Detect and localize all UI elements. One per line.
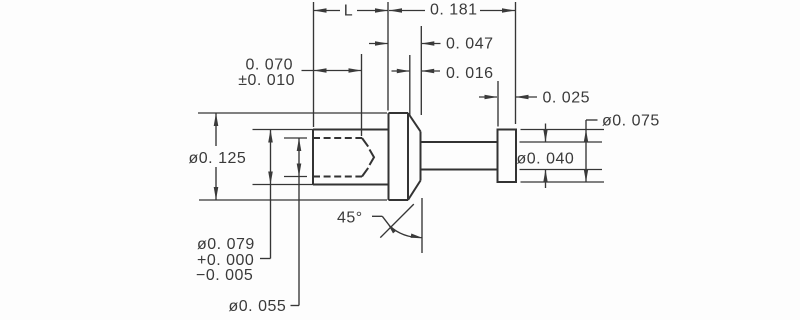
extension line: flange left face (L / 0.181 / 0.047) — [387, 2, 389, 111]
extension line: chamfer start (0.016) — [409, 55, 411, 115]
extension line: cap top (dia 0.075) — [521, 129, 605, 131]
extension line: bore bottom (dia 0.055) — [284, 176, 307, 178]
hidden bore cone lower (dashed) — [362, 168, 368, 177]
extension line: shaft bottom (dia 0.040) — [520, 169, 603, 171]
extension line: flange top (dia 0.125) — [198, 112, 387, 114]
extension line: shaft top (dia 0.040) — [520, 141, 603, 143]
hidden bore cone tip chevron — [370, 150, 375, 166]
svg-text:−0. 005: −0. 005 — [196, 267, 253, 284]
hidden bore bottom (dashed) — [313, 176, 362, 178]
svg-text:ø0. 055: ø0. 055 — [229, 298, 287, 315]
svg-text:0. 016: 0. 016 — [446, 65, 493, 82]
extension line: flange right face (0.047 / 0.016) — [420, 26, 422, 115]
extension line: cap bottom (dia 0.075) — [521, 181, 605, 183]
part: socket barrel outer body — [313, 129, 389, 131]
dimension dia 0.079 (barrel diameter) leader — [270, 130, 272, 185]
hidden bore cone upper (dashed) — [362, 138, 368, 147]
45 degree dimension arc — [390, 226, 422, 237]
svg-text:ø0. 040: ø0. 040 — [517, 151, 575, 168]
part: pin end cap — [498, 130, 517, 183]
svg-text:ø0. 075: ø0. 075 — [602, 113, 660, 130]
dimension 0.181 — [389, 10, 425, 12]
dimension L (barrel length) — [314, 10, 341, 12]
part: flange top chamfer — [408, 113, 421, 132]
dimension dia 0.075 (cap diameter) — [585, 120, 587, 182]
extension line: cap left face (0.025) — [497, 81, 499, 127]
svg-text:ø0. 125: ø0. 125 — [189, 150, 247, 167]
svg-text:0. 181: 0. 181 — [430, 2, 477, 19]
extension line: flange bottom (dia 0.125) — [199, 199, 387, 201]
hidden bore top (dashed) — [313, 137, 362, 139]
dimension dia 0.040 (shaft diameter) — [545, 124, 547, 142]
svg-text:0. 025: 0. 025 — [543, 90, 590, 107]
extension line: barrel bottom (dia 0.079) — [253, 184, 314, 186]
extension line: barrel top (dia 0.079) — [253, 129, 314, 131]
part: flange bottom chamfer — [408, 181, 421, 201]
extension line: cap right face (0.181 / 0.025) — [515, 2, 517, 124]
extension line: barrel left face (L / 0.070) — [313, 2, 315, 127]
svg-text:45°: 45° — [337, 210, 363, 227]
45 degree vertical reference line — [421, 198, 423, 253]
extension line: bore top (dia 0.055) — [284, 137, 307, 139]
part: flange top edge — [389, 112, 409, 114]
extension line: bore depth (0.070) — [361, 54, 363, 136]
dimension 0.016 (chamfer width) — [392, 70, 410, 72]
dimension 0.047 (flange width) — [369, 43, 388, 45]
dimension 0.070 +/-0.010 (bore depth) — [302, 70, 362, 72]
dimension dia 0.125 (flange diameter) — [215, 113, 217, 146]
part: flange chamfer tangent line — [407, 113, 409, 200]
svg-text:L: L — [344, 3, 353, 20]
dimension 0.025 (cap width) — [479, 96, 497, 98]
svg-text:0. 047: 0. 047 — [446, 36, 493, 53]
part: pin shaft — [421, 141, 498, 143]
dimension dia 0.055 (bore diameter) leader — [298, 138, 300, 177]
svg-text:±0. 010: ±0. 010 — [238, 72, 295, 89]
part: flange bottom edge — [389, 199, 409, 201]
part: flange left face — [388, 113, 390, 200]
svg-text:ø0. 079: ø0. 079 — [197, 236, 255, 253]
part: flange right face — [420, 132, 422, 181]
45 degree construction line — [380, 204, 414, 238]
